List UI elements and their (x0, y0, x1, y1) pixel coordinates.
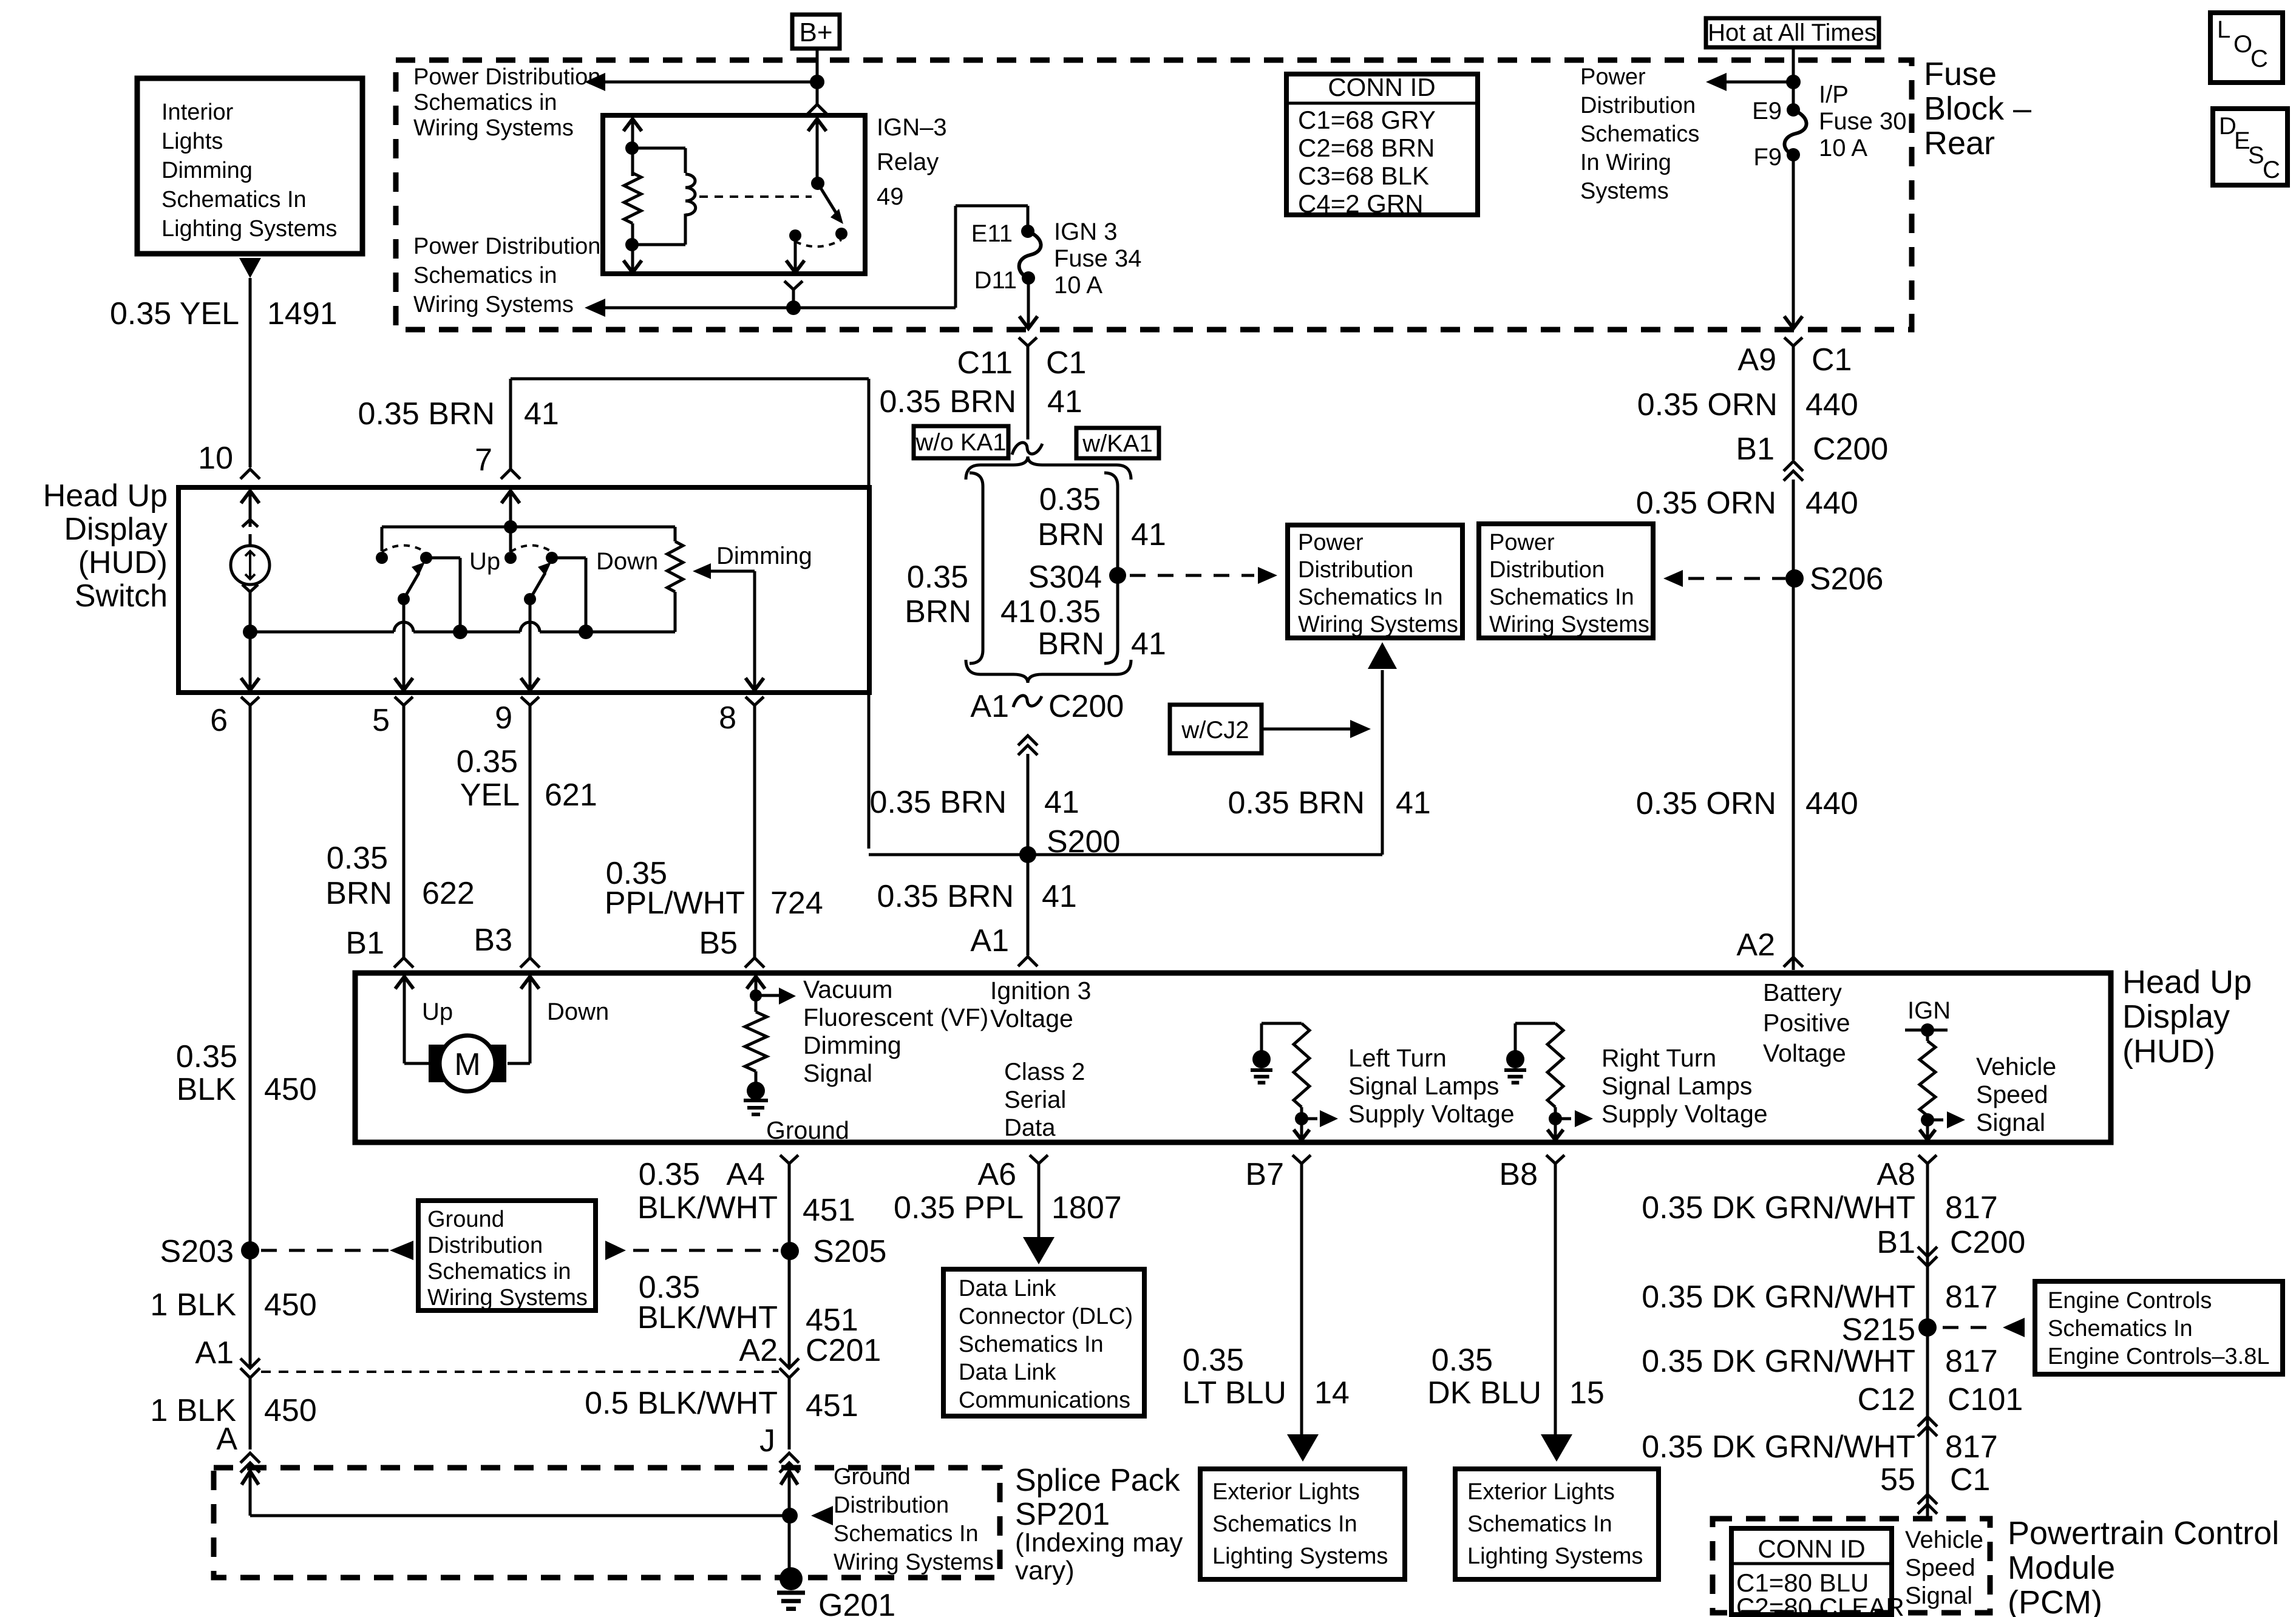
svg-text:15: 15 (1569, 1375, 1605, 1411)
down switch arm (524, 593, 536, 605)
svg-text:Schematics In: Schematics In (1467, 1511, 1612, 1537)
wire into splice pack (left) (249, 1470, 252, 1516)
svg-text:(PCM): (PCM) (2008, 1584, 2102, 1617)
wire arrow to Power Distribution (hot bus) (1725, 81, 1793, 84)
brace top (branch split) (966, 456, 1131, 480)
up switch left contact (381, 527, 384, 551)
connector HUD pin B5 (745, 958, 764, 968)
svg-text:Signal: Signal (1905, 1582, 1972, 1609)
svg-text:451: 451 (806, 1388, 858, 1423)
svg-text:YEL: YEL (460, 778, 520, 813)
svg-text:A1: A1 (195, 1335, 234, 1371)
wire splice rail (250, 1514, 790, 1517)
wire dashed S206 to Power Distribution (1688, 577, 1785, 580)
box Splice Pack dashed (214, 1468, 1000, 1578)
svg-text:Fluorescent (VF): Fluorescent (VF) (803, 1003, 988, 1031)
svg-text:Systems: Systems (1580, 178, 1669, 204)
connector HUD pin A2 (1784, 957, 1803, 967)
wire into splice pack (right) (788, 1470, 791, 1579)
svg-text:451: 451 (803, 1193, 855, 1228)
wire A8 down to PCM (1926, 1164, 1929, 1517)
svg-text:B3: B3 (474, 923, 512, 958)
svg-text:A: A (216, 1422, 237, 1457)
box Ground Distribution Schematics in Wiring Systems (418, 1201, 596, 1310)
svg-text:Wiring Systems: Wiring Systems (413, 115, 574, 141)
svg-text:1 BLK: 1 BLK (150, 1287, 236, 1323)
svg-text:Splice Pack: Splice Pack (1015, 1463, 1181, 1498)
node Hot at All Times box (1706, 18, 1879, 47)
svg-text:S200: S200 (1047, 824, 1120, 859)
svg-text:41: 41 (1047, 384, 1082, 419)
svg-text:817: 817 (1945, 1280, 1998, 1315)
svg-text:0.35: 0.35 (457, 744, 518, 779)
svg-text:A6: A6 (977, 1157, 1016, 1192)
connector pin 6 (241, 697, 259, 705)
svg-text:S205: S205 (813, 1234, 886, 1269)
svg-text:S203: S203 (160, 1234, 234, 1269)
table CONN ID (fuse block) (1286, 74, 1478, 215)
svg-text:10 A: 10 A (1054, 272, 1102, 299)
right turn resistor unit (1506, 1050, 1524, 1068)
node S200 (1019, 846, 1036, 863)
svg-text:A1: A1 (970, 923, 1009, 958)
svg-text:55: 55 (1880, 1462, 1915, 1497)
box Head Up Display (HUD) (355, 973, 2111, 1142)
IGN resistor unit (1905, 1029, 1948, 1032)
svg-text:Supply Voltage: Supply Voltage (1601, 1100, 1768, 1128)
svg-text:vary): vary) (1015, 1556, 1075, 1585)
relay dashed actuator link (699, 195, 812, 198)
svg-text:E11: E11 (971, 220, 1013, 247)
svg-text:O: O (2233, 31, 2252, 58)
node B+ box (792, 15, 840, 49)
node S215 (1918, 1318, 1937, 1337)
left turn resistor unit (1252, 1050, 1271, 1068)
svg-text:0.35 BRN: 0.35 BRN (358, 396, 495, 432)
HUD switch pin 7 arrow (501, 491, 520, 503)
connector HUD pin B3 (520, 958, 540, 968)
svg-text:Lights: Lights (161, 129, 223, 154)
svg-text:450: 450 (264, 1072, 317, 1107)
wire branch w/o KA1 (970, 473, 983, 486)
svg-text:Schematics In: Schematics In (2048, 1316, 2193, 1341)
svg-text:Hot at All Times: Hot at All Times (1708, 19, 1877, 46)
svg-text:49: 49 (877, 183, 904, 210)
svg-text:In Wiring: In Wiring (1580, 150, 1671, 175)
svg-text:10 A: 10 A (1819, 135, 1867, 161)
wire dashed C201 line (261, 1371, 779, 1373)
wire 0.35 BRN 622 (pin 5) (402, 705, 406, 957)
box Engine Controls Schematics In Engine Controls-3.8L (2035, 1281, 2283, 1374)
relay output wire (794, 236, 797, 273)
svg-text:C3=68 BLK: C3=68 BLK (1298, 161, 1429, 190)
svg-text:C12: C12 (1858, 1382, 1915, 1417)
box Powertrain Control Module dashed (1713, 1519, 1990, 1613)
connector pin 5 (395, 697, 413, 705)
svg-text:817: 817 (1945, 1429, 1998, 1465)
wire dashed S304 to Power Distribution (1130, 574, 1254, 577)
svg-text:Up: Up (422, 998, 453, 1025)
svg-text:Dimming: Dimming (716, 543, 812, 569)
svg-text:Schematics In: Schematics In (1489, 585, 1634, 610)
svg-text:C101: C101 (1948, 1382, 2023, 1417)
wire dashed S203 to ground box (261, 1249, 389, 1252)
svg-text:41: 41 (524, 396, 559, 432)
svg-text:A9: A9 (1737, 342, 1776, 378)
svg-text:Data Link: Data Link (959, 1360, 1057, 1385)
connector relay pin (B+) (807, 104, 827, 114)
svg-text:817: 817 (1945, 1190, 1998, 1225)
svg-text:9: 9 (495, 700, 512, 736)
pin 9 wire (529, 599, 532, 690)
svg-text:1807: 1807 (1051, 1190, 1122, 1225)
svg-text:Exterior Lights: Exterior Lights (1467, 1479, 1615, 1505)
fuse block dashed outline (396, 60, 1912, 330)
svg-text:C1=68 GRY: C1=68 GRY (1298, 106, 1436, 134)
wire B8 to exterior lights (1554, 1164, 1557, 1435)
wire dashed S215 to engine controls (1943, 1326, 1997, 1329)
down switch right contact (546, 552, 558, 564)
svg-text:B1: B1 (1736, 432, 1775, 467)
svg-text:Schematics In: Schematics In (1212, 1511, 1357, 1537)
connector C11 C1 (1019, 337, 1037, 346)
svg-text:B+: B+ (799, 18, 832, 47)
svg-text:0.35 BRN: 0.35 BRN (880, 384, 1016, 419)
connector A9 C1 (1784, 337, 1802, 346)
wire 0.35 PPL/WHT 724 (pin 8) (753, 705, 756, 957)
svg-text:Wiring Systems: Wiring Systems (427, 1285, 588, 1310)
wire arrow to Power Distribution (B+) (605, 81, 817, 84)
switch top rail (382, 526, 675, 529)
svg-text:1491: 1491 (267, 296, 338, 331)
brace bottom (branch merge) (966, 660, 1131, 683)
svg-text:C1: C1 (1950, 1462, 1990, 1497)
svg-text:0.35: 0.35 (1039, 594, 1101, 629)
svg-text:C: C (2250, 46, 2268, 72)
pin 8 out arrow (746, 678, 764, 690)
svg-text:Lighting Systems: Lighting Systems (1467, 1544, 1643, 1569)
svg-text:Lighting Systems: Lighting Systems (161, 216, 337, 242)
wire S200 down to A1 (1027, 855, 1030, 955)
svg-text:0.35 ORN: 0.35 ORN (1637, 387, 1778, 422)
relay resistor lower lead (631, 223, 634, 273)
VF ground (747, 1082, 765, 1100)
svg-text:Signal: Signal (803, 1059, 872, 1087)
svg-text:Dimming: Dimming (161, 158, 253, 183)
svg-text:621: 621 (545, 778, 597, 813)
svg-text:41: 41 (1131, 626, 1166, 662)
arrow to Power Distribution (ign bus) (585, 299, 605, 317)
svg-text:Ground: Ground (766, 1116, 849, 1144)
svg-text:Schematics In: Schematics In (1298, 585, 1443, 610)
svg-text:DK BLU: DK BLU (1427, 1375, 1541, 1411)
wire 0.35 BLK 450 (pin 6) (249, 705, 252, 1368)
svg-text:BRN: BRN (325, 876, 392, 911)
svg-text:Distribution: Distribution (1580, 93, 1696, 118)
fuse IGN 3 Fuse 34 terminals (1021, 225, 1034, 238)
svg-text:C1: C1 (1812, 342, 1852, 378)
svg-text:Down: Down (596, 548, 658, 575)
svg-text:0.35 BRN: 0.35 BRN (877, 879, 1014, 914)
svg-text:C: C (2263, 157, 2280, 183)
wire S200 rail (869, 853, 1382, 856)
wire Hot at All Times down to fuse E9 (1792, 47, 1795, 110)
HUD pin B5 arrow (VF dimming) (747, 977, 765, 989)
svg-text:Head Up: Head Up (2122, 964, 2252, 1000)
svg-text:LT BLU: LT BLU (1183, 1375, 1287, 1411)
HUD switch common rail (243, 625, 257, 639)
svg-text:A8: A8 (1877, 1157, 1915, 1192)
svg-text:Schematics in: Schematics in (427, 1259, 571, 1284)
svg-text:440: 440 (1805, 786, 1858, 821)
svg-text:Voltage: Voltage (1763, 1039, 1846, 1067)
svg-text:Schematics in: Schematics in (413, 263, 557, 288)
arrow VF dimming label (756, 994, 779, 997)
svg-text:A2: A2 (1736, 927, 1775, 963)
wire fuse F9 down (1792, 155, 1795, 328)
wire 0.35 ORN 440 upper (1792, 346, 1795, 460)
svg-text:(HUD): (HUD) (78, 545, 168, 580)
svg-text:C201: C201 (806, 1333, 881, 1368)
svg-text:C2=68 BRN: C2=68 BRN (1298, 134, 1435, 162)
svg-text:Vehicle: Vehicle (1905, 1527, 1983, 1553)
svg-text:14: 14 (1314, 1375, 1350, 1411)
up switch dashed arc (382, 546, 425, 552)
svg-text:S206: S206 (1810, 561, 1883, 597)
svg-text:0.35: 0.35 (1432, 1343, 1493, 1378)
svg-text:Fuse 30: Fuse 30 (1819, 108, 1907, 135)
connector HUD switch pin 10 (240, 469, 260, 479)
node w/CJ2 box (1170, 705, 1262, 753)
node LOC box (2210, 13, 2283, 83)
svg-text:Distribution: Distribution (1489, 557, 1605, 583)
wire 0.35 BRN 41 (C200 to S200) (1027, 754, 1030, 855)
svg-text:Battery: Battery (1763, 978, 1842, 1006)
svg-text:440: 440 (1805, 486, 1858, 521)
svg-text:Fuse: Fuse (1924, 56, 1997, 92)
svg-text:S: S (2248, 142, 2264, 169)
box Power Distribution Schematics In Wiring Systems (left) (1288, 525, 1462, 638)
node S206 (1785, 569, 1804, 588)
wire branch w/ KA1 (1104, 473, 1118, 486)
svg-text:B1: B1 (345, 926, 384, 961)
svg-text:41: 41 (1044, 785, 1079, 820)
svg-text:Engine Controls–3.8L: Engine Controls–3.8L (2048, 1344, 2269, 1369)
relay switch contacts (835, 228, 847, 240)
fuse I/P Fuse 30 terminals (1787, 103, 1800, 117)
svg-text:Distribution: Distribution (1298, 557, 1413, 583)
wire B7 to exterior lights (1300, 1164, 1303, 1435)
svg-text:Schematics in: Schematics in (413, 90, 557, 115)
wire A4 to S205 (788, 1164, 791, 1368)
lamp symbol (242, 520, 258, 527)
svg-text:E9: E9 (1752, 98, 1782, 124)
svg-text:IGN: IGN (1907, 997, 1951, 1024)
svg-text:0.35: 0.35 (1039, 482, 1101, 517)
svg-text:w/CJ2: w/CJ2 (1181, 717, 1249, 744)
svg-text:Power Distribution: Power Distribution (413, 234, 600, 259)
box Head Up Display (HUD) Switch (178, 487, 869, 693)
svg-text:Exterior Lights: Exterior Lights (1212, 1479, 1360, 1505)
svg-text:C200: C200 (1048, 689, 1124, 724)
svg-text:41: 41 (1131, 517, 1166, 552)
svg-text:Class 2: Class 2 (1004, 1059, 1085, 1085)
HUD pin B1 arrow (Up) (395, 977, 413, 989)
svg-text:Lighting Systems: Lighting Systems (1212, 1544, 1388, 1569)
svg-text:PPL/WHT: PPL/WHT (605, 886, 745, 921)
svg-text:Signal Lamps: Signal Lamps (1348, 1072, 1499, 1100)
connector A6 (1030, 1155, 1048, 1164)
connector HUD pin A1 (1018, 957, 1038, 966)
lamp lower lead (242, 585, 258, 592)
svg-text:A1: A1 (970, 689, 1009, 724)
relay pin arrow bottom-left (623, 260, 642, 273)
svg-text:8: 8 (719, 700, 736, 736)
arrow into Interior Lights box (239, 258, 261, 278)
connector into HUD harness (A1 C200) (1018, 736, 1038, 745)
svg-text:Speed: Speed (1905, 1554, 1975, 1581)
svg-text:Voltage: Voltage (990, 1005, 1073, 1032)
svg-text:Data: Data (1004, 1114, 1056, 1141)
svg-text:IGN 3: IGN 3 (1054, 219, 1117, 245)
down switch left contact (509, 527, 512, 552)
svg-text:Connector (DLC): Connector (DLC) (959, 1304, 1133, 1329)
connector C201 left (240, 1368, 260, 1378)
svg-text:Serial: Serial (1004, 1086, 1066, 1113)
svg-text:Ignition 3: Ignition 3 (990, 977, 1091, 1005)
wire A6 to DLC (1038, 1164, 1041, 1238)
connector A4 (780, 1155, 798, 1164)
node S203 (241, 1241, 259, 1259)
wire 0.5 BLK/WHT 451 (788, 1378, 791, 1449)
svg-text:Power: Power (1298, 530, 1364, 555)
pin 5 wire (402, 599, 406, 690)
svg-text:0.35 DK GRN/WHT: 0.35 DK GRN/WHT (1642, 1280, 1915, 1315)
svg-text:C200: C200 (1950, 1225, 2025, 1260)
svg-text:Signal Lamps: Signal Lamps (1601, 1072, 1752, 1100)
svg-text:450: 450 (264, 1393, 317, 1428)
pin 10 out arrow (249, 632, 252, 690)
svg-text:Engine Controls: Engine Controls (2048, 1288, 2212, 1314)
svg-text:Speed: Speed (1976, 1080, 2048, 1108)
up switch right contact (420, 552, 432, 564)
box Exterior Lights (right) (1455, 1469, 1659, 1579)
svg-text:Schematics In: Schematics In (161, 187, 307, 212)
relay pin arrow top-left (623, 119, 642, 131)
svg-text:Supply Voltage: Supply Voltage (1348, 1100, 1515, 1128)
motor M (404, 1062, 430, 1065)
svg-text:Schematics In: Schematics In (959, 1332, 1104, 1357)
svg-text:Head Up: Head Up (43, 478, 168, 514)
svg-text:Vehicle: Vehicle (1976, 1053, 2056, 1080)
svg-text:5: 5 (372, 703, 390, 738)
wire 0.35 ORN 440 mid (1792, 480, 1795, 970)
connector relay output pin (784, 281, 803, 290)
svg-text:7: 7 (475, 442, 492, 478)
box Data Link Connector (DLC) (943, 1269, 1144, 1416)
svg-text:(Indexing may: (Indexing may (1015, 1528, 1183, 1558)
wire fuse D11 down (1027, 278, 1030, 328)
svg-text:BRN: BRN (905, 594, 971, 629)
svg-text:w/KA1: w/KA1 (1082, 430, 1153, 457)
pin 9 out arrow (521, 678, 539, 690)
relay IGN-3 box 49 (603, 115, 865, 274)
svg-text:CONN ID: CONN ID (1758, 1534, 1865, 1563)
relay resistor (624, 173, 641, 223)
svg-text:Down: Down (547, 998, 609, 1025)
box Exterior Lights (left) (1200, 1469, 1405, 1579)
connector splice J (779, 1453, 799, 1463)
svg-text:Distribution: Distribution (427, 1233, 543, 1258)
svg-text:B1: B1 (1877, 1225, 1915, 1260)
svg-text:I/P: I/P (1819, 81, 1849, 108)
svg-text:Wiring Systems: Wiring Systems (834, 1550, 994, 1575)
svg-text:w/o KA1: w/o KA1 (915, 429, 1007, 456)
svg-text:0.35 ORN: 0.35 ORN (1636, 786, 1776, 821)
svg-text:Data Link: Data Link (959, 1276, 1057, 1301)
wire 0.35 BRN 41 (fuse to split) (1027, 346, 1030, 439)
svg-text:41: 41 (1042, 879, 1077, 914)
svg-text:Relay: Relay (877, 149, 939, 175)
wire B+ into relay (816, 49, 819, 104)
table CONN ID (PCM) (1731, 1528, 1892, 1615)
svg-text:0.35: 0.35 (907, 560, 968, 595)
svg-text:Switch: Switch (75, 578, 168, 614)
wire dashed S205 from ground box (605, 1241, 626, 1260)
svg-text:C200: C200 (1813, 432, 1888, 467)
svg-text:Power: Power (1580, 64, 1646, 90)
node DESC box (2213, 109, 2288, 185)
svg-text:J: J (759, 1423, 775, 1459)
svg-text:Rear: Rear (1924, 125, 1995, 161)
connector B7 (1292, 1155, 1311, 1164)
svg-text:Positive: Positive (1763, 1009, 1850, 1037)
up switch arm (398, 593, 410, 605)
svg-text:Schematics: Schematics (1580, 121, 1699, 147)
connector C201 right (779, 1358, 799, 1368)
svg-text:0.35 DK GRN/WHT: 0.35 DK GRN/WHT (1642, 1190, 1915, 1225)
svg-text:Dimming: Dimming (803, 1031, 902, 1059)
svg-text:BRN: BRN (1038, 626, 1104, 662)
svg-text:Vacuum: Vacuum (803, 975, 892, 1003)
box Power Distribution Schematics In Wiring Systems (right) (1479, 524, 1653, 638)
wire 1 BLK 450 (lower) (249, 1378, 252, 1449)
relay coil (632, 147, 685, 150)
svg-text:Fuse 34: Fuse 34 (1054, 245, 1142, 272)
dimming potentiometer (674, 527, 677, 541)
svg-text:0.35 BRN: 0.35 BRN (870, 785, 1007, 820)
svg-text:BLK: BLK (177, 1072, 237, 1107)
svg-text:10: 10 (198, 441, 233, 476)
svg-text:CONN ID: CONN ID (1328, 73, 1435, 101)
svg-text:817: 817 (1945, 1344, 1998, 1379)
svg-text:0.35 PPL: 0.35 PPL (894, 1190, 1024, 1225)
svg-text:Display: Display (2122, 998, 2230, 1035)
relay switch common (816, 119, 819, 183)
svg-text:0.35: 0.35 (1183, 1343, 1244, 1378)
svg-text:Left Turn: Left Turn (1348, 1044, 1447, 1072)
svg-text:D11: D11 (974, 267, 1017, 294)
wire 0.35 YEL 1491 (HUD switch pin 10 to Interior Lights) (249, 278, 252, 467)
node w/KA1 box (1076, 428, 1159, 458)
svg-text:S215: S215 (1842, 1312, 1915, 1347)
svg-text:0.35 BRN: 0.35 BRN (1228, 785, 1365, 821)
connector HUD switch pin 7 (501, 469, 520, 479)
svg-text:C1: C1 (1046, 345, 1086, 381)
svg-text:(HUD): (HUD) (2122, 1033, 2215, 1070)
svg-text:Module: Module (2008, 1550, 2115, 1586)
svg-text:SP201: SP201 (1015, 1497, 1110, 1532)
